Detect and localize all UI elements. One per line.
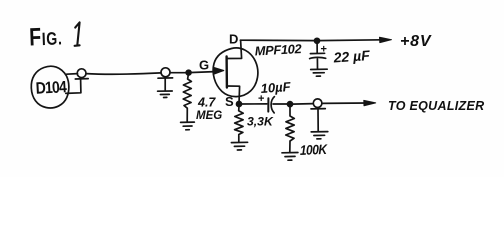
top rail wire to +8V (240, 39, 383, 42)
svg-text:4.7: 4.7 (197, 96, 216, 110)
svg-text:S: S (225, 94, 234, 109)
figure label FIG. 1 (29, 22, 485, 158)
node gate junction (186, 70, 191, 75)
arrowhead to equalizer (364, 100, 376, 105)
input plug connector P1 (77, 69, 86, 78)
wire C1 to node (273, 103, 290, 105)
resistor R1 4.7 MEG (183, 75, 191, 122)
node 22uF tap (315, 38, 320, 43)
svg-text:+8V: +8V (400, 33, 432, 50)
resistor R3 100K (286, 106, 295, 152)
svg-text:D: D (229, 32, 238, 47)
wire jack to gate (170, 72, 214, 73)
svg-text:TO EQUALIZER: TO EQUALIZER (388, 99, 484, 113)
svg-text:22 µF: 22 µF (332, 47, 371, 66)
wire mic to plug (67, 73, 78, 76)
output jack J2 (313, 99, 322, 108)
jack connector J1 (161, 68, 170, 77)
ground at R3 (282, 152, 298, 154)
ground at jack J1 (164, 78, 166, 91)
svg-text:100K: 100K (300, 141, 329, 158)
svg-text:MPF102: MPF102 (254, 41, 301, 58)
capacitor C1 10uF (267, 98, 269, 111)
JFET channel bar (225, 57, 228, 88)
wire main input line (86, 73, 161, 74)
JFET gate arrow (215, 71, 223, 72)
svg-text:+: + (321, 44, 327, 56)
svg-text:3,3K: 3,3K (247, 115, 274, 129)
wire source to C1 (241, 103, 267, 105)
JFET drain lead (227, 40, 242, 58)
svg-text:10µF: 10µF (260, 79, 292, 96)
node source junction (237, 102, 242, 107)
wire shield loop mic to plug sleeve (66, 79, 81, 93)
capacitor C2 22uF (316, 43, 318, 53)
svg-text:FIG.: FIG. (29, 22, 63, 51)
ground at R2 (231, 141, 247, 143)
arrowhead +8V (380, 37, 392, 42)
svg-text:G: G (199, 58, 209, 73)
svg-text:MEG: MEG (196, 110, 222, 122)
JFET Q1 MPF102 circle (213, 48, 258, 97)
resistor R2 3.3K (235, 106, 244, 141)
ground at C2 (311, 68, 328, 70)
node output junction (288, 102, 293, 107)
microphone D104 body (31, 66, 69, 108)
wire node to output jack (292, 103, 313, 106)
ground at R1 (181, 121, 195, 123)
JFET source lead (227, 86, 240, 104)
svg-text:+: + (258, 93, 264, 105)
svg-text:D104: D104 (35, 78, 67, 98)
ground at J2 (317, 109, 319, 131)
wire to equalizer (322, 102, 368, 104)
